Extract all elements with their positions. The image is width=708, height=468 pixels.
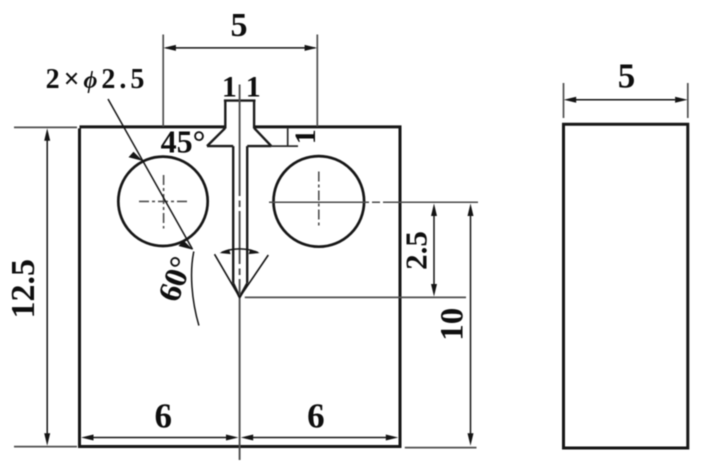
extension line at notch tip level [245, 296, 466, 298]
front view plate outline [80, 127, 401, 447]
svg-text:5: 5 [231, 7, 248, 44]
svg-text:12.5: 12.5 [5, 259, 42, 319]
dimension 6 left / 6 right bottom line with arrows [92, 437, 387, 439]
svg-text:2×ϕ2.5: 2×ϕ2.5 [46, 64, 149, 95]
hole circle right [274, 156, 365, 247]
dimension 5 (hole spacing) line with arrows [166, 47, 315, 49]
side view dimension 5 extension lines [564, 83, 688, 118]
dimension 10 line with arrows [470, 213, 472, 436]
svg-text:1: 1 [222, 71, 237, 104]
leader line 2x phi 2.5 [108, 99, 193, 249]
vertical centerline through notch [239, 85, 241, 461]
extension line at bottom right [405, 447, 477, 449]
dimension 12.5 extension lines [14, 127, 77, 446]
60 degree dimension arc with arrows [222, 249, 259, 253]
svg-text:5: 5 [618, 57, 636, 96]
60 degree angle legs [215, 254, 269, 297]
center cross left hole [139, 175, 190, 229]
dimension 12.5 line with arrows [46, 138, 48, 436]
dimension 1 (notch depth) line [271, 129, 298, 147]
svg-text:1: 1 [289, 129, 322, 144]
60 degree leader arc [192, 252, 199, 326]
svg-text:45°: 45° [161, 124, 206, 160]
center cross right hole [318, 172, 320, 228]
svg-text:2.5: 2.5 [399, 231, 434, 270]
side view dimension 5 line with arrows [576, 99, 675, 101]
svg-text:1: 1 [246, 71, 261, 104]
svg-text:6: 6 [307, 397, 325, 436]
dimension 2.5 line with arrows [433, 213, 435, 287]
side view outline [564, 124, 688, 448]
svg-text:10: 10 [435, 308, 471, 341]
notch tab and slot [207, 101, 271, 298]
right hole horizontal centerline extended for dims [269, 201, 478, 203]
hole circle left [118, 157, 207, 246]
dimension 5 (hole spacing) extension lines [163, 35, 317, 127]
svg-text:6: 6 [155, 397, 173, 436]
